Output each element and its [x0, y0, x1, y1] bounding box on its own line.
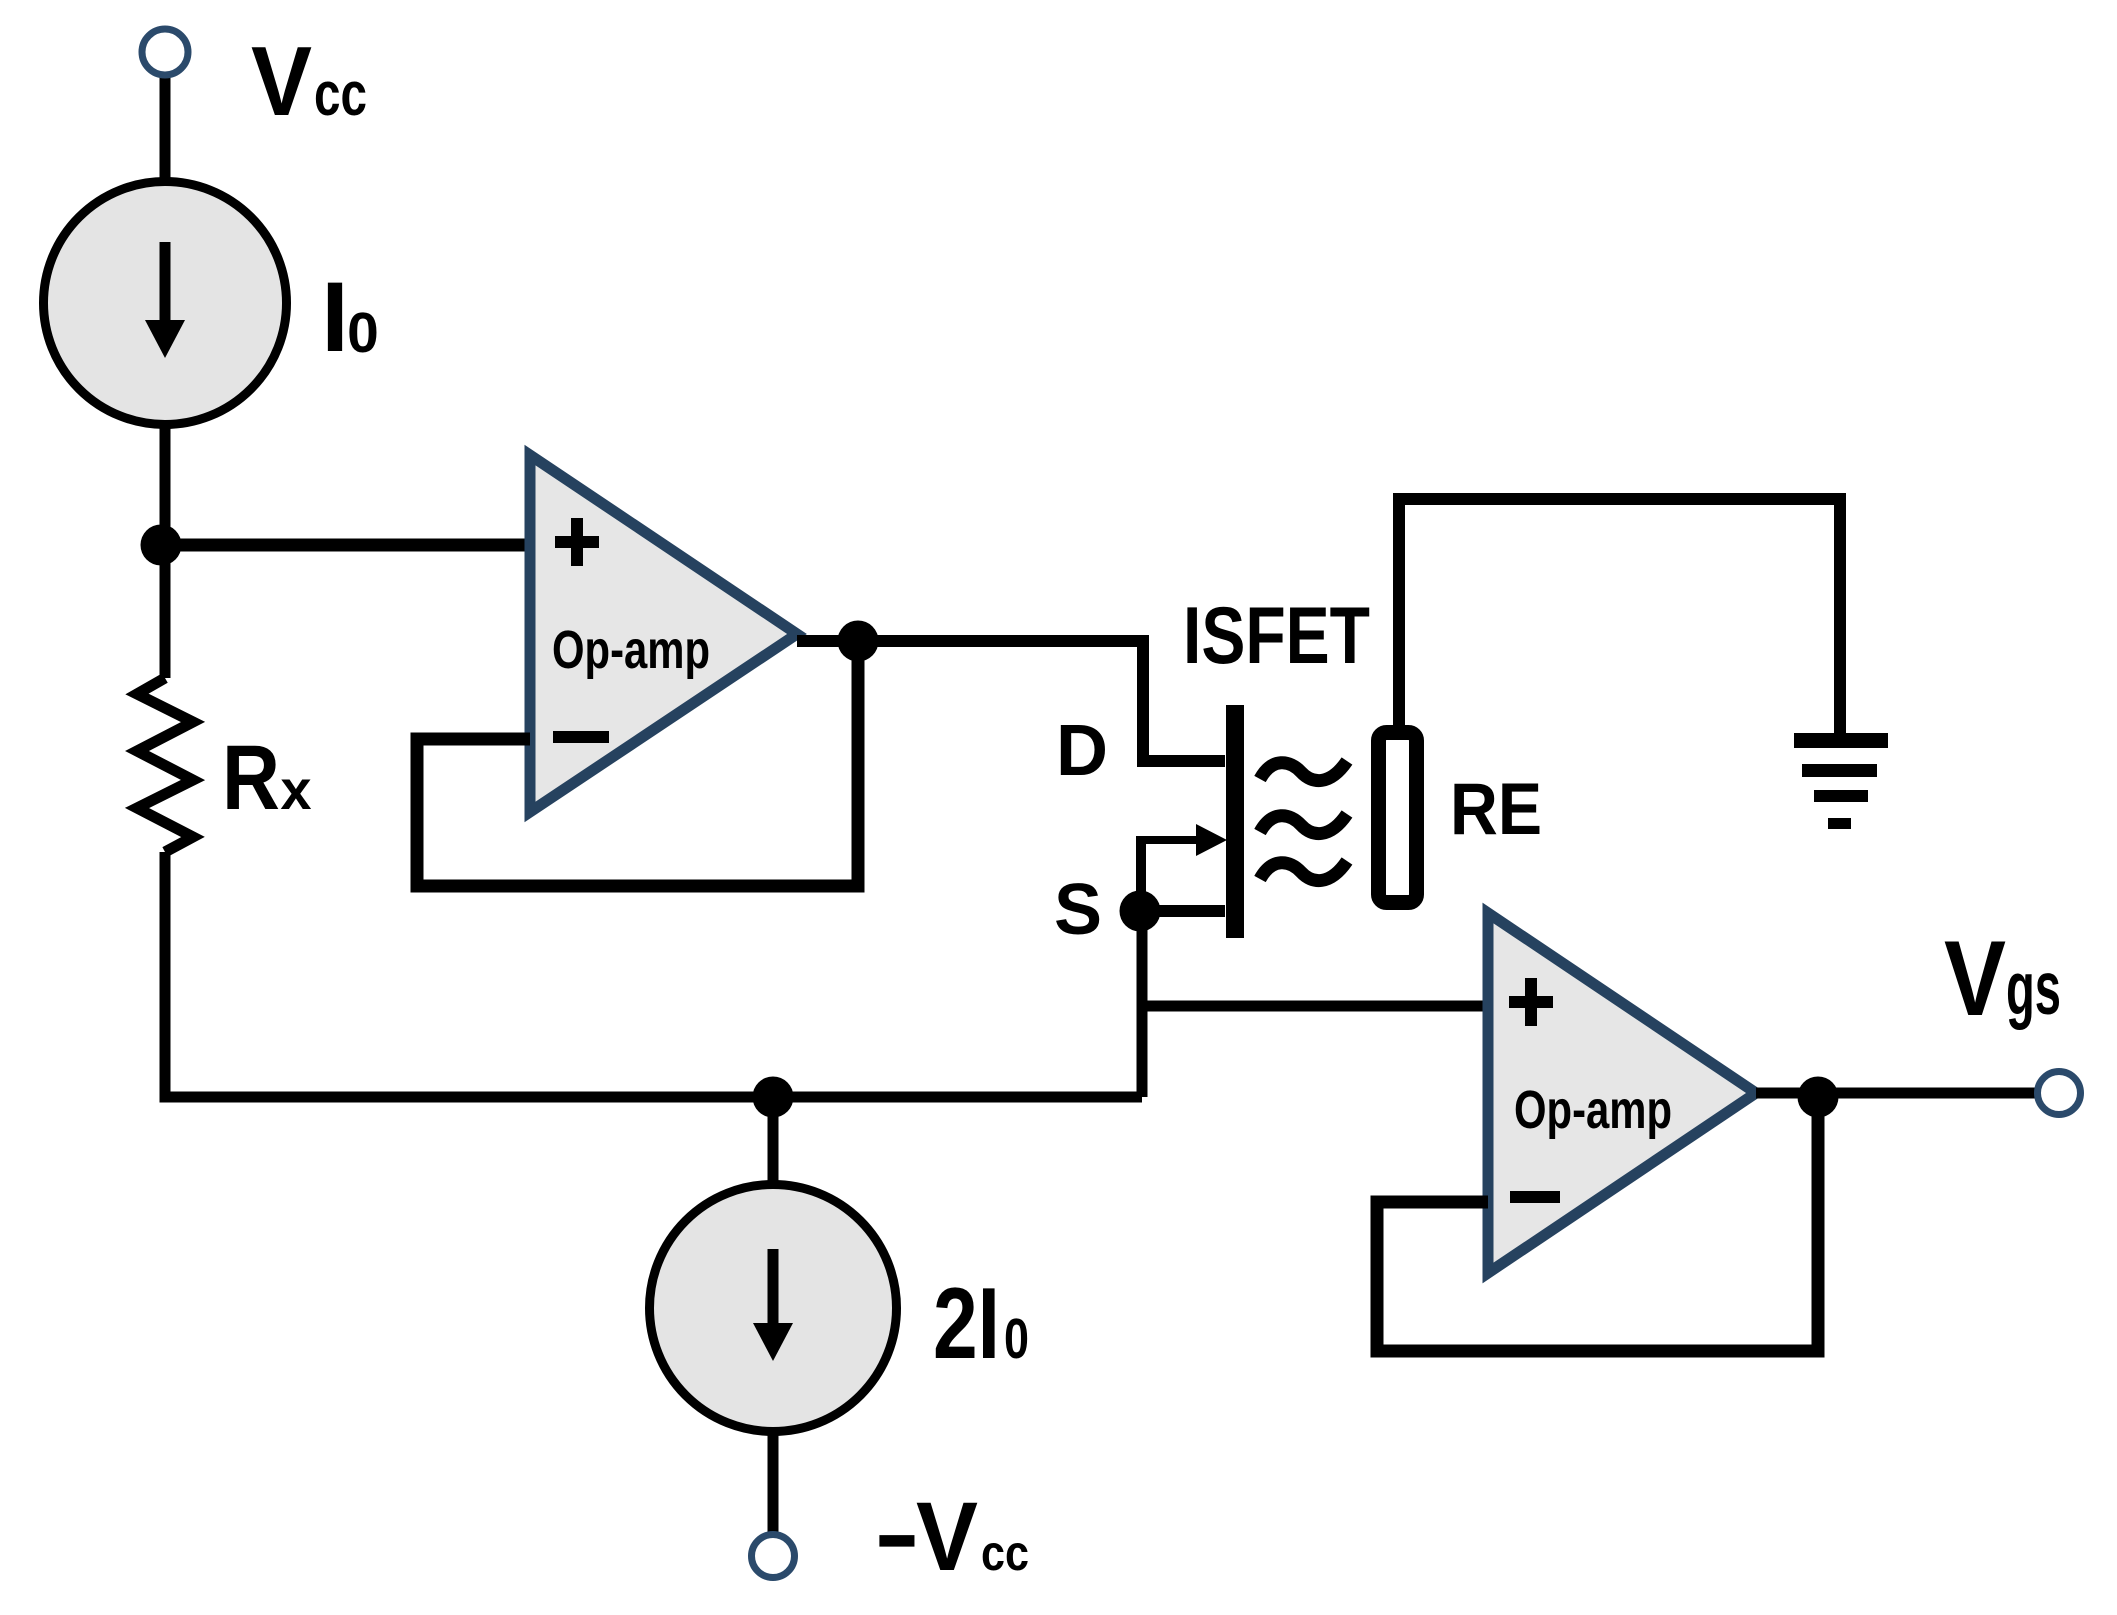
wavy line 1 (electrolyte) [1260, 761, 1347, 781]
wire node to op-amp1 + input [161, 539, 532, 552]
svg-text:V: V [916, 1482, 978, 1591]
svg-text:x: x [280, 758, 311, 821]
terminal -Vcc [752, 1535, 795, 1578]
wire 2I0 to -Vcc terminal [768, 1432, 779, 1532]
node B (op-amp1 output) [838, 621, 879, 662]
op-amp U1 [530, 455, 797, 812]
wavy line 2 [1260, 814, 1347, 834]
reference electrode RE [1379, 733, 1417, 903]
svg-text:ISFET: ISFET [1183, 591, 1370, 681]
svg-text:S: S [1054, 870, 1102, 950]
svg-text:Op-amp: Op-amp [552, 620, 710, 680]
wire S branch to op-amp2 + input [1142, 1001, 1490, 1012]
svg-text:R: R [222, 727, 280, 829]
node C (op-amp2 output) [1798, 1077, 1839, 1118]
wavy line 3 [1260, 861, 1347, 881]
svg-text:Op-amp: Op-amp [1514, 1080, 1672, 1140]
terminal Vgs [2038, 1072, 2081, 1115]
node S [1120, 891, 1161, 932]
svg-text:cc: cc [981, 1525, 1029, 1581]
svg-text:gs: gs [2006, 946, 2061, 1030]
current source I0 [44, 182, 287, 425]
wire op-amp2 output [1756, 1088, 2038, 1099]
wire op-amp1 output [797, 635, 1143, 647]
op-amp U2 minus input marker [1510, 1191, 1560, 1203]
svg-text:2I: 2I [933, 1268, 1000, 1380]
wire feedback loop op-amp1 [417, 647, 858, 886]
svg-text:V: V [251, 26, 312, 136]
op-amp U2 plus input marker [1509, 978, 1553, 1026]
arrow inside I0 [160, 242, 171, 322]
wire I0 to resistor (through node) [160, 425, 171, 678]
wire RE to ground rail [1399, 499, 1840, 733]
current source 2I0 [650, 1185, 897, 1432]
svg-text:0: 0 [1004, 1307, 1029, 1371]
op-amp U1 plus input marker [555, 518, 599, 566]
svg-text:RE: RE [1450, 769, 1542, 850]
wire S down to rail [1137, 911, 1148, 1097]
ground [1794, 733, 1888, 748]
node A (junction at I0 / Rx / op-amp1) [141, 525, 182, 566]
ISFET gate arrow [1142, 836, 1199, 844]
wire Vcc terminal stub [160, 78, 171, 179]
wire rail to 2I0 [768, 1097, 779, 1185]
svg-text:I: I [321, 261, 349, 372]
op-amp U2 [1488, 913, 1756, 1273]
svg-text:V: V [1944, 918, 2006, 1038]
node D (rail junction to 2I0) [753, 1077, 794, 1118]
svg-text:-: - [874, 1478, 920, 1587]
wire Rx to bottom rail [165, 852, 1142, 1097]
resistor Rx [137, 678, 193, 852]
op-amp U1 minus input marker [553, 731, 609, 743]
terminal Vcc [142, 29, 188, 75]
transistor ISFET channel bar [1226, 705, 1244, 938]
svg-text:D: D [1056, 711, 1108, 791]
arrow inside 2I0 [768, 1249, 779, 1323]
wire source connection [1140, 905, 1225, 917]
wire feedback loop op-amp2 [1377, 1097, 1818, 1351]
svg-text:cc: cc [314, 60, 367, 129]
wire drain connection [1143, 635, 1225, 761]
svg-text:0: 0 [347, 301, 379, 365]
